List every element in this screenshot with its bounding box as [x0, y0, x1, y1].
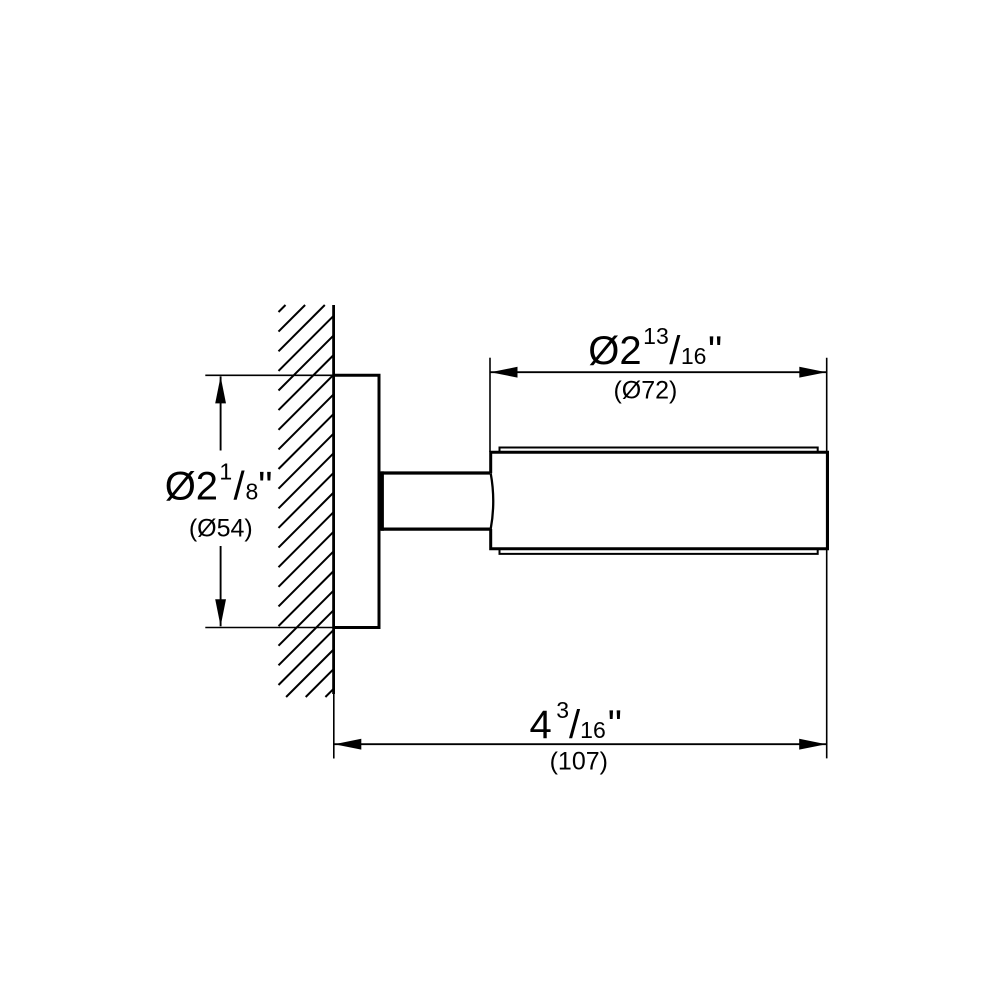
left dim bottom arrowhead [215, 599, 226, 626]
extension line: right (shared by top and bottom dims) [826, 358, 828, 759]
arm bottom line [381, 527, 490, 530]
arm/cylinder fillet arc [491, 473, 494, 529]
cylinder bottom lip [500, 549, 818, 554]
left dim top arrowhead [215, 376, 226, 403]
cylinder top lip [500, 448, 818, 453]
wall hatching [279, 305, 334, 697]
bottom dim left arrowhead [334, 739, 361, 750]
wall plate [334, 375, 379, 627]
extension line: top dim left (at cylinder left) [489, 358, 491, 452]
left dimension line upper segment [220, 376, 222, 450]
extension line: left dim top [205, 374, 333, 376]
svg-text:43/16": 43/16" [530, 697, 622, 747]
svg-text:(Ø54): (Ø54) [189, 515, 253, 543]
bottom dim right arrowhead [799, 739, 826, 750]
wall face line [332, 305, 335, 694]
bottom dimension line [334, 743, 826, 745]
svg-text:(Ø72): (Ø72) [613, 377, 677, 405]
extension line: bottom dim left (below wall) [333, 694, 335, 759]
top dim left arrowhead [491, 367, 518, 378]
arm base bold bar [380, 471, 384, 530]
extension line: left dim bottom [205, 627, 333, 629]
top dim right arrowhead [799, 367, 826, 378]
cylinder body [491, 452, 828, 549]
arm top line [381, 471, 490, 474]
top dimension line [491, 371, 827, 373]
svg-text:(107): (107) [550, 748, 608, 776]
left dimension line lower segment [220, 546, 222, 626]
